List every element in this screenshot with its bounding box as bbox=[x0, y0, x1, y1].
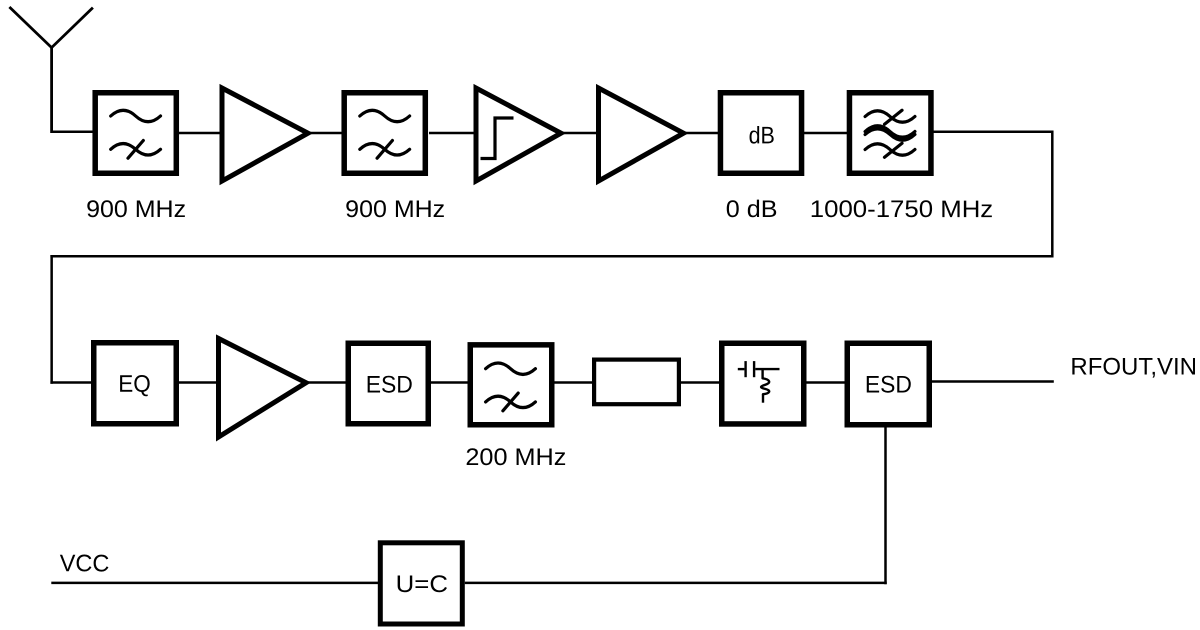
wire F1 to A1 bbox=[179, 132, 222, 135]
wire ESD2 to output bbox=[932, 380, 1054, 383]
antenna bbox=[9, 7, 93, 133]
wire VCC to U=C bbox=[51, 582, 378, 585]
wire F2 to limiter bbox=[429, 132, 476, 135]
filter F1 (900 MHz) bbox=[95, 93, 176, 174]
EQ box bbox=[94, 343, 177, 424]
svg-text:EQ: EQ bbox=[118, 371, 151, 398]
svg-text:dB: dB bbox=[749, 122, 775, 149]
svg-text:0 dB: 0 dB bbox=[726, 196, 778, 223]
filter F2 (900 MHz) bbox=[344, 93, 425, 174]
wire limiter to A3 bbox=[561, 132, 599, 135]
svg-text:900 MHz: 900 MHz bbox=[86, 196, 186, 223]
svg-text:1000-1750 MHz: 1000-1750 MHz bbox=[810, 196, 993, 223]
wire EQ to A4 bbox=[179, 381, 219, 384]
wire dB box to F3 bbox=[804, 132, 847, 135]
wire F4 to attenuator pad bbox=[555, 381, 593, 384]
wire A3 to attenuator dB bbox=[684, 132, 719, 135]
wire bias tee to ESD2 bbox=[807, 381, 846, 384]
regulator U=C box bbox=[380, 543, 462, 624]
amplifier A4 bbox=[219, 339, 307, 438]
capacitor C (dc block) bbox=[738, 368, 745, 370]
wire ESD2 down to VCC bus bbox=[884, 427, 887, 584]
svg-text:VCC: VCC bbox=[60, 550, 110, 577]
wire middle bus across bbox=[50, 255, 1053, 258]
wire A4 to ESD1 bbox=[306, 381, 346, 384]
wire right bus down bbox=[1051, 131, 1054, 258]
svg-text:ESD: ESD bbox=[366, 372, 413, 399]
wire antenna to F1 bbox=[52, 131, 93, 134]
svg-text:ESD: ESD bbox=[865, 372, 912, 399]
ESD box 1 bbox=[348, 343, 428, 424]
ESD box 2 bbox=[847, 343, 929, 425]
wire A1 to F2 bbox=[307, 132, 342, 135]
svg-text:200 MHz: 200 MHz bbox=[465, 444, 566, 471]
wire F3 to right corner bbox=[934, 131, 1054, 134]
filter F4 (200 MHz) bbox=[470, 345, 552, 425]
limiter amplifier A2 bbox=[476, 88, 561, 181]
wire left bus down bbox=[50, 255, 53, 384]
svg-text:RFOUT,VIN: RFOUT,VIN bbox=[1070, 354, 1197, 381]
wire U=C to ESD2 drop bbox=[465, 582, 887, 585]
band-pass filter F3 (1000-1750 MHz) bbox=[849, 93, 931, 174]
inductor L to ground bbox=[761, 369, 763, 378]
svg-text:U=C: U=C bbox=[396, 571, 448, 598]
svg-text:900 MHz: 900 MHz bbox=[345, 196, 445, 223]
wire ESD1 to F4 bbox=[431, 381, 468, 384]
attenuator dB box bbox=[720, 93, 801, 174]
bias tee box bbox=[722, 343, 804, 424]
wire left bus to EQ bbox=[50, 381, 91, 384]
amplifier A1 bbox=[222, 88, 308, 181]
attenuator pad (empty rectangle) bbox=[594, 360, 679, 405]
wire pad to bias tee bbox=[681, 381, 719, 384]
amplifier A3 bbox=[599, 88, 684, 181]
